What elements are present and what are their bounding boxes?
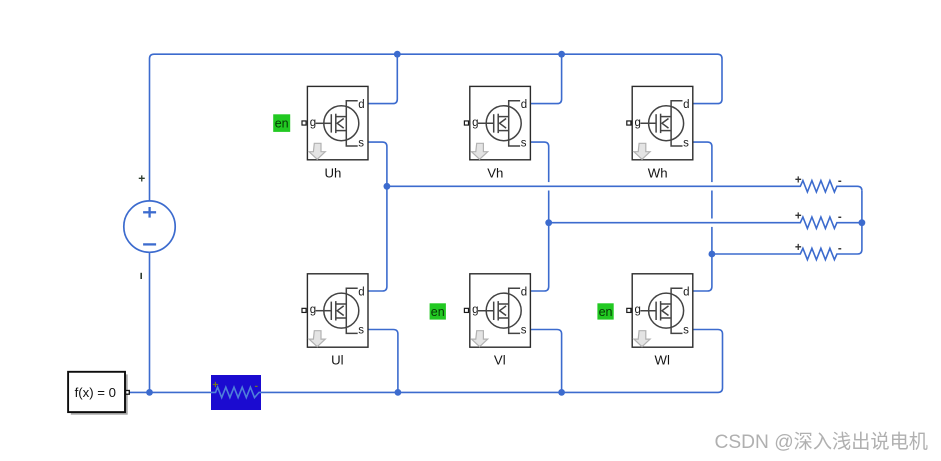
- wire: DC+ top bus with left vertical to source and right drop to Wh drain: [150, 54, 723, 201]
- svg-text:-: -: [838, 175, 842, 187]
- transistor Vl internal MOSFET symbol: [478, 288, 521, 333]
- svg-text:-: -: [255, 380, 259, 392]
- svg-text:-: -: [838, 212, 842, 224]
- transistor Vh gate port square: [464, 121, 468, 125]
- transistor Wl ground-reference gray arrow: [634, 331, 650, 347]
- solver block f(x)=0 shadow: [71, 374, 128, 414]
- svg-text:+: +: [212, 379, 218, 391]
- svg-text:Vh: Vh: [487, 165, 503, 180]
- svg-text:g: g: [472, 117, 478, 129]
- node en enable annotation for Uh: [273, 114, 290, 132]
- resistor R_series polarity labels: [212, 379, 258, 392]
- svg-text:g: g: [310, 304, 316, 316]
- transistor Ul gate port square: [302, 308, 306, 312]
- transistor Wl gate port square: [627, 308, 631, 312]
- transistor Ul block outline: [307, 274, 368, 347]
- transistor Uh block outline: [307, 86, 368, 159]
- svg-text:d: d: [358, 99, 364, 111]
- wire crossover gap at Wphase-leg / V line: [710, 219, 713, 227]
- DC voltage source V1: [124, 201, 175, 252]
- wire: Uh source down to Ul drain (phase U leg): [368, 142, 387, 291]
- transistor Ul internal MOSFET symbol: [316, 288, 359, 333]
- transistor Uh internal MOSFET symbol: [316, 101, 359, 146]
- svg-text:+: +: [795, 211, 802, 223]
- transistor Uh pin labels d g s: [310, 99, 365, 149]
- wire: Vh source down to Vl drain (phase V leg): [530, 142, 548, 291]
- svg-text:Vl: Vl: [494, 353, 506, 368]
- wire: Wh source down to Wl drain (phase W leg): [693, 142, 712, 291]
- svg-text:d: d: [521, 99, 527, 111]
- DC source outer - label (rotated tick): [140, 273, 142, 279]
- wire junction node at (548.7,222.7): [545, 219, 552, 226]
- svg-text:f(x) = 0: f(x) = 0: [75, 385, 116, 400]
- svg-text:s: s: [683, 137, 689, 149]
- wire: Ul source down to bottom bus: [368, 330, 398, 393]
- svg-text:g: g: [310, 117, 316, 129]
- node en enable annotation for Wl: [597, 303, 613, 319]
- transistor Vh internal MOSFET symbol: [478, 101, 521, 146]
- svg-text:d: d: [521, 287, 527, 299]
- transistor Vl gate port square: [464, 308, 468, 312]
- svg-text:s: s: [683, 325, 689, 337]
- wire junction node at (386.9,186.3): [384, 183, 391, 190]
- svg-text:+: +: [795, 242, 802, 254]
- wire crossover gap at Wphase-leg / U line: [710, 182, 713, 190]
- svg-text:s: s: [358, 137, 364, 149]
- svg-text:Ul: Ul: [331, 353, 344, 368]
- svg-text:d: d: [683, 287, 689, 299]
- transistor Ul ground-reference gray arrow: [309, 331, 325, 347]
- transistor Ul pin labels d g s: [310, 287, 365, 337]
- wire crossover gap at Vphase-leg / U line: [547, 182, 550, 190]
- transistor Vh pin labels d g s: [472, 99, 527, 149]
- wire junction node at (861.9,222.7): [859, 219, 866, 226]
- svg-text:Uh: Uh: [324, 165, 341, 180]
- svg-text:s: s: [521, 325, 527, 337]
- wire + resistor R3 phase W line to right bus: [712, 248, 862, 259]
- wire: DC- left vertical from source bottom down to bottom bus: [149, 252, 151, 392]
- wire junction node at (149.5,392.4): [146, 389, 153, 396]
- transistor Wh pin labels d g s: [635, 99, 690, 149]
- solver block f(x)=0: [68, 372, 125, 412]
- wire junction node at (397.3,54.2): [394, 51, 401, 58]
- transistor Wl internal MOSFET symbol: [640, 288, 683, 333]
- wire: bottom DC- bus from f(x) port to Wl source: [129, 330, 722, 393]
- transistor Wh gate port square: [627, 121, 631, 125]
- transistor Vh ground-reference gray arrow: [472, 143, 488, 159]
- wire: Vl source down to bottom bus: [530, 330, 561, 393]
- transistor Wl block outline: [632, 274, 693, 347]
- svg-text:Wh: Wh: [648, 165, 668, 180]
- svg-text:CSDN @深入浅出说电机: CSDN @深入浅出说电机: [715, 431, 929, 453]
- wire: right neutral bus vertical: [861, 191, 863, 250]
- svg-text:en: en: [431, 305, 445, 319]
- wire + resistor R2 phase V line to right bus: [549, 217, 862, 228]
- transistor Wh block outline: [632, 86, 693, 159]
- wire junction node at (561.6,54.2): [558, 51, 565, 58]
- svg-text:-: -: [838, 243, 842, 255]
- svg-text:g: g: [635, 304, 641, 316]
- transistor Vl pin labels d g s: [472, 287, 527, 337]
- svg-text:d: d: [683, 99, 689, 111]
- wire + resistor R1 phase U line to right bus: [387, 181, 862, 192]
- transistor Vl ground-reference gray arrow: [472, 331, 488, 347]
- svg-text:Wl: Wl: [655, 353, 670, 368]
- svg-text:+: +: [138, 172, 145, 186]
- transistor Vh block outline: [470, 86, 531, 159]
- resistor R3 polarity labels: [795, 242, 842, 255]
- svg-text:+: +: [795, 174, 802, 186]
- resistor R2 polarity labels: [795, 211, 842, 224]
- wire junction node at (561.6,392.4): [558, 389, 565, 396]
- svg-text:g: g: [635, 117, 641, 129]
- svg-text:en: en: [599, 305, 613, 319]
- svg-text:d: d: [358, 287, 364, 299]
- resistor R_series zigzag element: [211, 387, 261, 397]
- svg-text:en: en: [275, 116, 289, 130]
- solver block output port square: [126, 391, 130, 395]
- transistor Wh internal MOSFET symbol: [640, 101, 683, 146]
- transistor Uh gate port square: [302, 121, 306, 125]
- wire: Uh drain to top bus: [368, 54, 397, 103]
- svg-text:s: s: [358, 325, 364, 337]
- node en enable annotation for Vl: [430, 303, 446, 319]
- wire junction node at (397.9,392.4): [395, 389, 402, 396]
- resistor R1 polarity labels: [795, 174, 842, 187]
- wire junction node at (711.9,254.0): [709, 251, 716, 258]
- transistor Wl pin labels d g s: [635, 287, 690, 337]
- transistor Vl block outline: [470, 274, 531, 347]
- svg-text:g: g: [472, 304, 478, 316]
- svg-text:s: s: [521, 137, 527, 149]
- transistor Wh ground-reference gray arrow: [634, 143, 650, 159]
- resistor R_series selected blue block: [211, 375, 261, 410]
- transistor Uh ground-reference gray arrow: [309, 143, 325, 159]
- wire: Vh drain to top bus: [530, 54, 561, 103]
